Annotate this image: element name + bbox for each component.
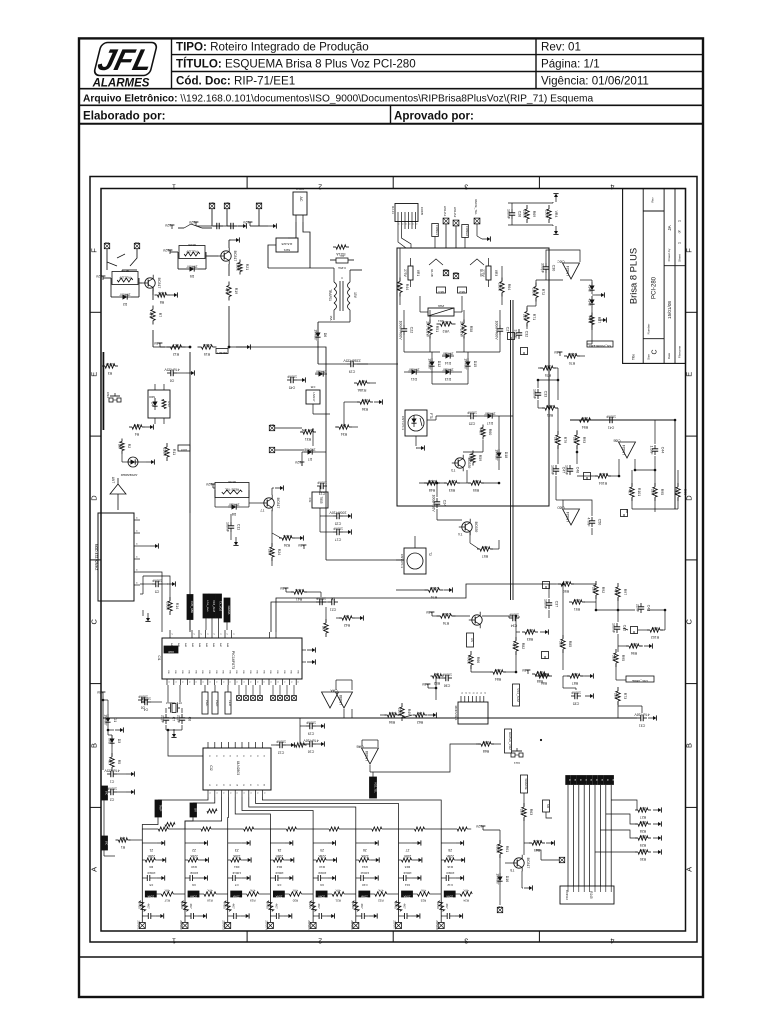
svg-text:10K: 10K — [388, 711, 395, 715]
svg-text:ZONA: ZONA — [403, 895, 410, 898]
zone channel 1 resistor 47K — [161, 892, 173, 896]
capacitor C8 22pF — [181, 714, 183, 718]
svg-text:Filename: Filename — [678, 346, 682, 359]
zone channel 1 top resistor 1K — [158, 827, 168, 831]
capacitor C50 4.7nF — [591, 517, 593, 521]
svg-text:100nF: 100nF — [606, 415, 616, 419]
zone channel 7 bottom cap branch — [399, 915, 405, 917]
svg-text:228K: 228K — [523, 210, 527, 219]
svg-text:BC817: BC817 — [276, 498, 280, 509]
svg-text:BC817: BC817 — [233, 251, 237, 262]
ground D20 — [596, 294, 601, 296]
svg-text:SIN: SIN — [224, 201, 229, 205]
svg-text:CI1: CI1 — [157, 656, 161, 661]
svg-text:R64: R64 — [507, 284, 511, 290]
svg-text:R15: R15 — [137, 903, 141, 909]
diode D14 1N4007 — [442, 355, 446, 357]
svg-text:RL1: RL1 — [438, 290, 444, 294]
svg-text:56K: 56K — [651, 626, 658, 630]
capacitor C42 100nF — [616, 623, 618, 627]
svg-text:Drawn by: Drawn by — [667, 248, 671, 261]
svg-text:R48: R48 — [429, 488, 435, 492]
diode D1 1N4007 — [107, 714, 109, 718]
svg-text:RB: RB — [249, 670, 251, 674]
svg-text:4K7: 4K7 — [108, 759, 112, 765]
connector CON5 RJ11 — [395, 204, 418, 222]
svg-text:RL2A: RL2A — [188, 243, 196, 247]
capacitor C4 100nF — [141, 701, 145, 703]
svg-text:47K: 47K — [149, 312, 153, 319]
fuse F1 — [336, 258, 348, 263]
svg-text:B: B — [90, 743, 99, 748]
capacitor C3 47uF/25V — [167, 372, 171, 374]
wire learn rail to CI1 — [189, 513, 191, 632]
net label MIC1 black — [101, 786, 108, 800]
svg-text:GRAVA: GRAVA — [227, 606, 231, 615]
fan wire zone1 with net label — [158, 797, 208, 800]
svg-text:C31: C31 — [639, 724, 645, 728]
svg-text:CI6B: CI6B — [613, 439, 620, 443]
svg-text:10K: 10K — [630, 642, 637, 646]
net label REJEIT — [216, 349, 228, 354]
svg-text:100nF: 100nF — [571, 691, 581, 695]
node SIN+ terminal — [209, 203, 214, 208]
diode D3 zener 5V1 — [111, 735, 113, 739]
svg-text:22pF: 22pF — [161, 715, 165, 723]
svg-text:ZONA 5: ZONA 5 — [307, 920, 311, 930]
svg-text:RL1A: RL1A — [121, 269, 129, 273]
svg-text:R4: R4 — [135, 432, 140, 436]
capacitor C13 100nF — [317, 485, 321, 487]
svg-text:R104: R104 — [599, 481, 607, 485]
resistor R99 15K — [677, 483, 679, 487]
relay RL2B contact — [184, 224, 202, 228]
svg-text:D8: D8 — [232, 512, 237, 516]
svg-text:ZONA: ZONA — [361, 895, 368, 898]
svg-text:RLE12V: RLE12V — [119, 276, 130, 280]
zone channel 6 rail — [355, 829, 357, 922]
svg-text:150V: 150V — [545, 210, 549, 219]
svg-text:1N4887: 1N4887 — [442, 368, 453, 372]
svg-text:R5: R5 — [117, 760, 121, 765]
net label SIRENE — [521, 775, 528, 793]
svg-text:R99: R99 — [683, 489, 687, 495]
svg-text:VR3: VR3 — [494, 270, 498, 276]
zone channel 3 resistor 4K7 diagonal — [224, 901, 231, 912]
svg-text:FONE1: FONE1 — [435, 225, 439, 235]
junction dot R19 rail — [228, 346, 231, 349]
svg-text:RB: RB — [201, 670, 203, 674]
capacitor C15 100nF — [333, 515, 337, 517]
svg-text:CH: CH — [135, 241, 139, 245]
svg-text:R22: R22 — [378, 899, 384, 903]
svg-text:R75: R75 — [545, 373, 551, 377]
svg-text:R58: R58 — [469, 326, 473, 332]
svg-text:M: M — [595, 779, 597, 781]
wire R7 down to learn rail — [152, 330, 154, 347]
resistor R36 10K — [357, 401, 360, 403]
wire fone — [434, 237, 436, 249]
svg-text:4148: 4148 — [588, 298, 592, 305]
svg-text:R94: R94 — [582, 425, 588, 429]
svg-text:LM324: LM324 — [566, 266, 570, 276]
svg-text:LM324: LM324 — [622, 445, 626, 455]
resistor R82 47K — [515, 637, 517, 641]
resistor R77 47K — [591, 313, 593, 316]
power +5V R76 — [431, 612, 433, 616]
svg-text:R95: R95 — [621, 655, 625, 661]
zone channel 4 bottom cap branch — [270, 915, 276, 917]
node RL1 label — [437, 287, 446, 293]
wires center right — [556, 583, 561, 585]
svg-text:CI3: CI3 — [308, 498, 312, 503]
crystal XT1 16MHZ — [172, 704, 176, 713]
svg-text:2R7 1/2W: 2R7 1/2W — [460, 321, 464, 337]
capacitor C5 100nF — [152, 583, 156, 585]
wire phone bus right — [510, 300, 512, 600]
svg-text:VR1: VR1 — [416, 270, 420, 276]
svg-text:D: D — [90, 495, 99, 501]
svg-text:228R: 228R — [441, 612, 450, 616]
svg-text:R14: R14 — [362, 865, 368, 869]
svg-text:1: 1 — [172, 937, 176, 944]
svg-text:+12V: +12V — [95, 274, 104, 278]
svg-text:C37: C37 — [554, 601, 558, 607]
svg-text:1N4887: 1N4887 — [104, 714, 108, 725]
DIP terminals group 2 — [271, 696, 276, 701]
zone channel 6 branch capacitor — [356, 877, 361, 879]
DIP terminals group 1 — [237, 696, 242, 701]
zone channel 5 branch resistor 228K — [316, 858, 326, 862]
transformer TRAF01 — [334, 282, 337, 289]
svg-text:R79: R79 — [563, 437, 567, 443]
svg-text:+5V: +5V — [421, 682, 428, 686]
svg-text:RB: RB — [174, 670, 176, 674]
net label VOZ_TEL black below CI4B — [370, 777, 377, 798]
capacitor C27 100nF/400V — [499, 325, 501, 329]
svg-text:R11: R11 — [172, 449, 176, 455]
svg-text:RB: RB — [208, 670, 210, 674]
svg-text:T3: T3 — [451, 468, 455, 472]
svg-text:4: 4 — [610, 183, 614, 190]
zone channel 8 resistor 4K7 diagonal — [438, 901, 445, 912]
svg-text:MODVOZ1: MODVOZ1 — [454, 706, 458, 721]
zone channel 4 branch capacitor — [270, 877, 275, 879]
svg-text:R68: R68 — [483, 749, 489, 753]
svg-text:ULN2803: ULN2803 — [236, 761, 240, 775]
svg-text:10K: 10K — [581, 416, 588, 420]
zone channel 7 branch Z arrow — [399, 842, 413, 844]
svg-text:R40: R40 — [351, 903, 355, 909]
capacitor C40 100nF — [316, 601, 320, 603]
svg-text:C42: C42 — [622, 625, 626, 631]
svg-text:RJ-11: RJ-11 — [391, 206, 395, 214]
svg-text:C30: C30 — [551, 265, 555, 271]
resistor R42 1K — [339, 617, 342, 619]
resistor R69 228K — [526, 205, 528, 209]
resistor R86 47K — [536, 675, 539, 677]
svg-text:100nF: 100nF — [533, 389, 537, 399]
resistor R3 33NR — [102, 365, 105, 367]
svg-text:Z7: Z7 — [405, 848, 409, 852]
resistor R96 10K — [626, 645, 629, 647]
svg-text:100nF: 100nF — [232, 871, 241, 875]
svg-text:MIC: MIC — [105, 841, 108, 846]
svg-text:12K: 12K — [554, 437, 558, 444]
zone channel 2 bottom cap branch — [185, 915, 191, 917]
resistor R66 470K — [470, 651, 472, 655]
capacitor C6 100nF — [138, 699, 142, 701]
svg-text:1N4007: 1N4007 — [119, 293, 130, 297]
zone channel 2 branch capacitor — [185, 877, 190, 879]
fan series resistor 1 — [165, 823, 175, 827]
svg-text:+5V: +5V — [297, 543, 304, 547]
svg-text:R76: R76 — [443, 621, 449, 625]
resistor R47 1K — [325, 619, 327, 623]
svg-text:R13: R13 — [167, 401, 171, 407]
fusible resistor SG1 box — [428, 308, 454, 316]
wire siren rail — [196, 225, 243, 227]
svg-text:RB: RB — [215, 670, 217, 674]
node RL2 label — [458, 287, 467, 293]
left MIC input caps C1 — [107, 773, 111, 775]
svg-text:100nF: 100nF — [190, 871, 199, 875]
svg-text:AUX: AUX — [256, 201, 262, 205]
svg-text:Página: 1/1: Página: 1/1 — [541, 57, 600, 70]
op-amp CI6B LM324 — [619, 442, 636, 458]
net label VX4_ALM — [513, 684, 520, 706]
svg-text:R21: R21 — [335, 899, 341, 903]
diode D19 4148 — [591, 282, 593, 286]
svg-text:+5V: +5V — [96, 690, 103, 694]
svg-text:1N4887: 1N4887 — [428, 358, 432, 369]
svg-text:R17: R17 — [164, 899, 170, 903]
power +12V RL3A — [212, 484, 214, 488]
svg-text:100nF: 100nF — [147, 871, 156, 875]
svg-text:4K7: 4K7 — [189, 903, 193, 909]
svg-text:56K: 56K — [612, 655, 616, 662]
wire transformer secondary — [318, 321, 350, 323]
svg-text:228R: 228R — [163, 448, 167, 457]
svg-text:1K: 1K — [330, 597, 335, 601]
svg-text:C7: C7 — [171, 717, 175, 722]
svg-text:100K: 100K — [532, 288, 536, 297]
capacitor C12 100nF — [276, 744, 280, 746]
transistor T5 BC817 — [514, 858, 524, 868]
wire opamp feedback — [546, 250, 580, 262]
svg-text:Z5: Z5 — [320, 848, 324, 852]
diode D18 1N4007 — [498, 449, 500, 453]
zone channel 8 net label ZONA black — [444, 891, 455, 897]
resistor R29 15K — [635, 837, 638, 839]
junction dot R75 col — [557, 379, 560, 382]
svg-text:Title: Title — [632, 354, 636, 360]
svg-text:LINHA2: LINHA2 — [453, 207, 457, 218]
svg-text:15K: 15K — [639, 806, 646, 810]
svg-text:100K: 100K — [498, 283, 502, 292]
svg-text:47K: 47K — [335, 889, 340, 893]
svg-text:C19: C19 — [308, 732, 314, 736]
svg-text:R20: R20 — [180, 903, 184, 909]
zone channel 2 terminal — [182, 923, 188, 929]
svg-text:R92: R92 — [601, 587, 605, 593]
title block column lines — [642, 189, 644, 364]
svg-text:275V: 275V — [481, 269, 485, 277]
svg-text:228R: 228R — [567, 352, 576, 356]
resistor R24 10K — [271, 543, 273, 547]
svg-text:1N4887: 1N4887 — [495, 449, 499, 460]
svg-text:D16: D16 — [505, 876, 509, 882]
arrow C35 — [585, 695, 590, 697]
wire opamp D — [563, 500, 592, 516]
capacitor C21 cap — [328, 601, 332, 603]
svg-text:0.25A: 0.25A — [338, 266, 346, 270]
zone channel 6 terminal — [353, 923, 359, 929]
svg-text:100nF: 100nF — [544, 599, 548, 609]
resistor R41 100K — [291, 591, 294, 593]
svg-text:D12: D12 — [437, 361, 441, 367]
zone channel 4 net label ZONA black — [273, 891, 284, 897]
svg-text:4K7: 4K7 — [479, 429, 483, 435]
ground C31 — [648, 717, 653, 719]
zone channel 5 terminal — [310, 923, 316, 929]
svg-text:+12V: +12V — [475, 824, 484, 828]
svg-text:15V: 15V — [353, 292, 357, 299]
zone channel 6 branch Z arrow — [356, 842, 370, 844]
resistor R79 12K — [557, 431, 559, 435]
svg-text:BC817: BC817 — [157, 278, 161, 289]
svg-text:C11: C11 — [236, 524, 240, 530]
svg-text:1N4887: 1N4887 — [484, 412, 495, 416]
svg-text:MOD 433.92MHZ: MOD 433.92MHZ — [94, 544, 98, 571]
svg-text:1N4007: 1N4007 — [186, 265, 197, 269]
diode D16 1N4007 — [499, 873, 501, 877]
svg-text:47K: 47K — [207, 889, 212, 893]
net label UHF black — [164, 646, 178, 653]
svg-text:C6: C6 — [192, 883, 196, 887]
zone channel 8 branch capacitor — [441, 877, 446, 879]
diode D20 4148 — [591, 296, 593, 300]
svg-text:47K: 47K — [464, 889, 469, 893]
resistor R62 1K — [413, 714, 416, 716]
svg-text:RL3B: RL3B — [430, 269, 434, 277]
svg-text:ZONA: ZONA — [446, 895, 453, 898]
svg-text:FT1: FT1 — [429, 413, 433, 419]
svg-text:D13: D13 — [445, 377, 451, 381]
svg-text:100nF: 100nF — [360, 871, 369, 875]
diode D17 1N4007 — [484, 415, 488, 417]
wires 7805 — [319, 486, 321, 492]
svg-text:C: C — [90, 619, 99, 625]
transistor HL1 LED — [472, 615, 482, 625]
svg-text:4: 4 — [610, 937, 614, 944]
zone channel 7 resistor 4K7 diagonal — [395, 901, 402, 912]
power +5V R70 — [559, 352, 561, 356]
svg-text:RLE12V: RLE12V — [186, 250, 197, 254]
svg-text:T2: T2 — [428, 552, 432, 556]
svg-text:R88: R88 — [537, 679, 543, 683]
svg-text:LM358: LM358 — [365, 751, 369, 761]
left rail +5V — [102, 692, 104, 696]
zone channel 5 rail — [312, 829, 314, 922]
resistor R56 10K — [385, 714, 388, 716]
resistor R102 56K — [647, 629, 650, 631]
wires mic — [103, 850, 105, 856]
resistor R18A 47K — [354, 382, 357, 384]
resistor R91 15K — [569, 601, 572, 603]
svg-text:15A: 15A — [329, 316, 333, 321]
svg-text:100nF: 100nF — [333, 527, 343, 531]
relay RL3A RELE-TEL — [215, 483, 249, 498]
svg-text:CI6C: CI6C — [557, 260, 565, 264]
resistor R61 680R — [499, 840, 501, 844]
wires left rail — [107, 726, 109, 735]
svg-text:D18: D18 — [504, 452, 508, 458]
svg-text:ZONA: ZONA — [147, 895, 154, 898]
svg-text:R18: R18 — [207, 899, 213, 903]
IC CI2 ULN2803 — [203, 748, 271, 790]
svg-text:47K: 47K — [378, 889, 383, 893]
svg-text:C21: C21 — [330, 608, 336, 612]
svg-text:4K7: 4K7 — [146, 903, 150, 909]
wire opamp out — [580, 279, 592, 281]
svg-text:100uF/16V: 100uF/16V — [432, 494, 436, 512]
svg-text:R8: R8 — [160, 300, 165, 304]
varistor VR2 150V — [437, 323, 441, 325]
svg-text:100nF: 100nF — [403, 871, 412, 875]
resistor R94 10K — [576, 419, 580, 421]
svg-text:33NR: 33NR — [105, 362, 114, 366]
zone channel 1 branch resistor 228K — [145, 858, 155, 862]
zone channel 5 resistor 4K7 diagonal — [310, 901, 317, 912]
wire T7 collector — [271, 488, 273, 495]
svg-text:R60: R60 — [488, 429, 492, 435]
net label bottom — [543, 800, 550, 812]
svg-text:C22: C22 — [409, 327, 413, 333]
zone channel 7 rail — [398, 829, 400, 922]
IC CI1 PIC16F873 — [162, 638, 302, 679]
svg-text:C35: C35 — [573, 702, 579, 706]
zone channel 3 top resistor 1K — [244, 827, 254, 831]
svg-text:C1: C1 — [110, 780, 115, 784]
svg-text:RB: RB — [296, 670, 298, 674]
svg-text:CNF_ABRE: CNF_ABRE — [632, 679, 648, 683]
svg-text:Z2: Z2 — [192, 848, 196, 852]
resistor R72 100K — [535, 283, 537, 287]
svg-text:4K7: 4K7 — [628, 489, 632, 495]
zone channel 6 top resistor 1K — [372, 827, 382, 831]
svg-text:470K: 470K — [467, 656, 471, 665]
zone channel 1 branch Z arrow — [142, 842, 156, 844]
svg-text:ZONA: ZONA — [232, 895, 239, 898]
wires opto area — [427, 419, 436, 421]
svg-text:1N4887: 1N4887 — [464, 358, 468, 369]
net label CNF_ABRE — [626, 676, 654, 682]
svg-text:CMF_ABR: CMF_ABR — [190, 601, 194, 614]
net label B5 — [543, 582, 550, 589]
svg-text:4K7: 4K7 — [173, 343, 179, 347]
junction dot left rail — [102, 699, 105, 702]
diode D11 1N4007 — [408, 371, 412, 373]
svg-text:R102: R102 — [651, 635, 659, 639]
wire R19 down — [228, 306, 230, 347]
relay RL2A coil — [179, 246, 205, 259]
voice module MODVOZ1 — [458, 702, 488, 724]
switch 118-228 — [276, 238, 298, 252]
connector CON12 wire bundle — [567, 785, 569, 886]
svg-text:A: A — [90, 867, 99, 872]
diode D10 1N4007 — [315, 373, 319, 375]
